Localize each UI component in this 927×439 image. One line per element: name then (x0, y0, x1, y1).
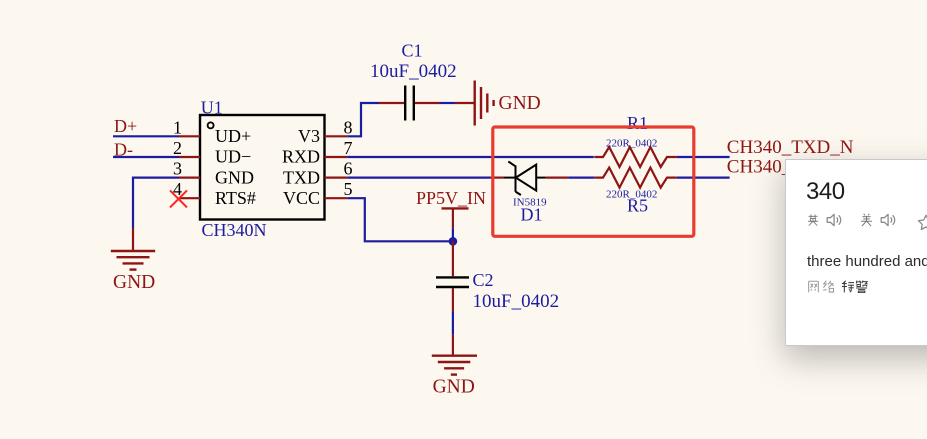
capacitor C1 (405, 86, 414, 121)
wire D1 to R5 (546, 177, 595, 179)
glyph 络 (822, 280, 835, 293)
refdes R5 (627, 196, 648, 216)
wire pin 7 to R1 (347, 156, 594, 158)
no-connect X on pin 4 (170, 190, 187, 207)
svg-text:6: 6 (344, 159, 353, 179)
refdes C1 (402, 41, 423, 61)
svg-text:3: 3 (173, 159, 182, 179)
svg-text:CH340_TXD_N: CH340_TXD_N (727, 137, 854, 158)
ground (below C2) (432, 356, 477, 375)
pin 1 UD+ (173, 117, 200, 137)
value label 220R_0402 (R1) (606, 138, 657, 150)
svg-text:VCC: VCC (283, 188, 320, 208)
wire pin 8 to C1 (347, 103, 404, 136)
svg-text:V3: V3 (298, 126, 320, 146)
value label 220R_0402 (R5) (606, 188, 657, 200)
wire GND net to pin 3 (133, 178, 179, 251)
wire C1 to ground (415, 102, 474, 104)
refdes D1 (521, 205, 543, 225)
svg-text:D+: D+ (114, 116, 137, 136)
wire junction to C2 (452, 241, 454, 276)
svg-text:UD+: UD+ (215, 126, 251, 146)
ground label GND (below C2) (433, 377, 475, 398)
wire D+ to pin 1 (113, 135, 179, 137)
svg-text:RXD: RXD (282, 147, 320, 167)
power port PP5V_IN (416, 188, 486, 241)
svg-text:U1: U1 (201, 98, 223, 118)
svg-text:UD−: UD− (215, 147, 251, 167)
svg-text:C2: C2 (473, 270, 494, 290)
ground label GND (lower left) (113, 272, 155, 293)
refdes U1 (201, 98, 223, 118)
svg-text:GND: GND (433, 377, 475, 398)
svg-text:5: 5 (344, 179, 353, 199)
pin 6 TXD (325, 159, 353, 179)
net label CH340_TXD_N (727, 137, 854, 158)
svg-text:RTS#: RTS# (215, 188, 256, 208)
star icon (favorite, clipped at window edge) (917, 214, 927, 231)
svg-text:R1: R1 (627, 113, 648, 133)
refdes R1 (627, 113, 648, 133)
svg-text:2: 2 (173, 138, 182, 158)
diode D1 IN5819 (504, 162, 546, 196)
speaker icon (UK) (826, 213, 843, 227)
selection box around D1 R1 R5 (493, 127, 694, 236)
refdes C2 (473, 270, 494, 290)
pin 5 VCC (325, 179, 353, 199)
svg-text:CH340N: CH340N (202, 220, 267, 240)
glyph 特 (841, 280, 854, 293)
svg-text:7: 7 (344, 138, 353, 158)
value label IN5819 (D1) (513, 196, 547, 208)
svg-text:D1: D1 (521, 205, 543, 225)
pin 8 V3 (325, 117, 353, 137)
capacitor C2 (436, 277, 469, 287)
net label CH340_RXD_N (partly hidden by popup) (727, 157, 855, 178)
pin 3 GND (173, 159, 200, 179)
glyph 美 (US) (860, 213, 873, 227)
dictionary popup window (785, 159, 927, 346)
svg-text:GND: GND (499, 93, 541, 114)
value label 10uF_0402 (C2) (473, 291, 560, 312)
wire pin 5 VCC to junction (347, 198, 451, 241)
svg-text:GND: GND (113, 272, 155, 293)
wire C2 to ground (452, 288, 454, 356)
junction node (PP5V_IN / VCC / C2) (449, 237, 458, 246)
svg-text:TXD: TXD (283, 167, 320, 187)
pin 2 UD- (173, 138, 200, 158)
svg-text:1: 1 (173, 117, 182, 137)
glyph 英 (UK) (807, 213, 819, 227)
pin 7 RXD (325, 138, 353, 158)
svg-text:GND: GND (215, 167, 254, 187)
wire D- to pin 2 (113, 156, 179, 158)
net label D- (114, 139, 133, 159)
svg-text:PP5V_IN: PP5V_IN (416, 188, 486, 208)
value label 10uF_0402 (C1) (370, 61, 457, 82)
wire R1 to net CH340_TXD_N (677, 156, 730, 158)
svg-text:10uF_0402: 10uF_0402 (370, 61, 457, 82)
svg-text:8: 8 (344, 117, 353, 137)
pin 4 RTS# (173, 179, 200, 199)
ground label GND (right of C1) (499, 93, 541, 114)
resistor R1 (594, 147, 677, 167)
svg-text:220R_0402: 220R_0402 (606, 138, 657, 150)
value label CH340N (202, 220, 267, 240)
svg-text:10uF_0402: 10uF_0402 (473, 291, 560, 312)
svg-text:R5: R5 (627, 196, 648, 216)
resistor R5 (594, 168, 677, 188)
glyph 警 (855, 280, 868, 293)
IC U1 CH340N body (200, 115, 325, 220)
svg-text:C1: C1 (402, 41, 423, 61)
ground (lower left) (111, 251, 155, 270)
glyph 网 (807, 280, 820, 293)
wire R5 to net CH340_RXD_N (677, 177, 730, 179)
speaker icon (US) (880, 213, 897, 227)
ground (right of C1) (475, 81, 494, 126)
net label D+ (114, 116, 137, 136)
wire pin 6 to D1 (347, 177, 503, 179)
